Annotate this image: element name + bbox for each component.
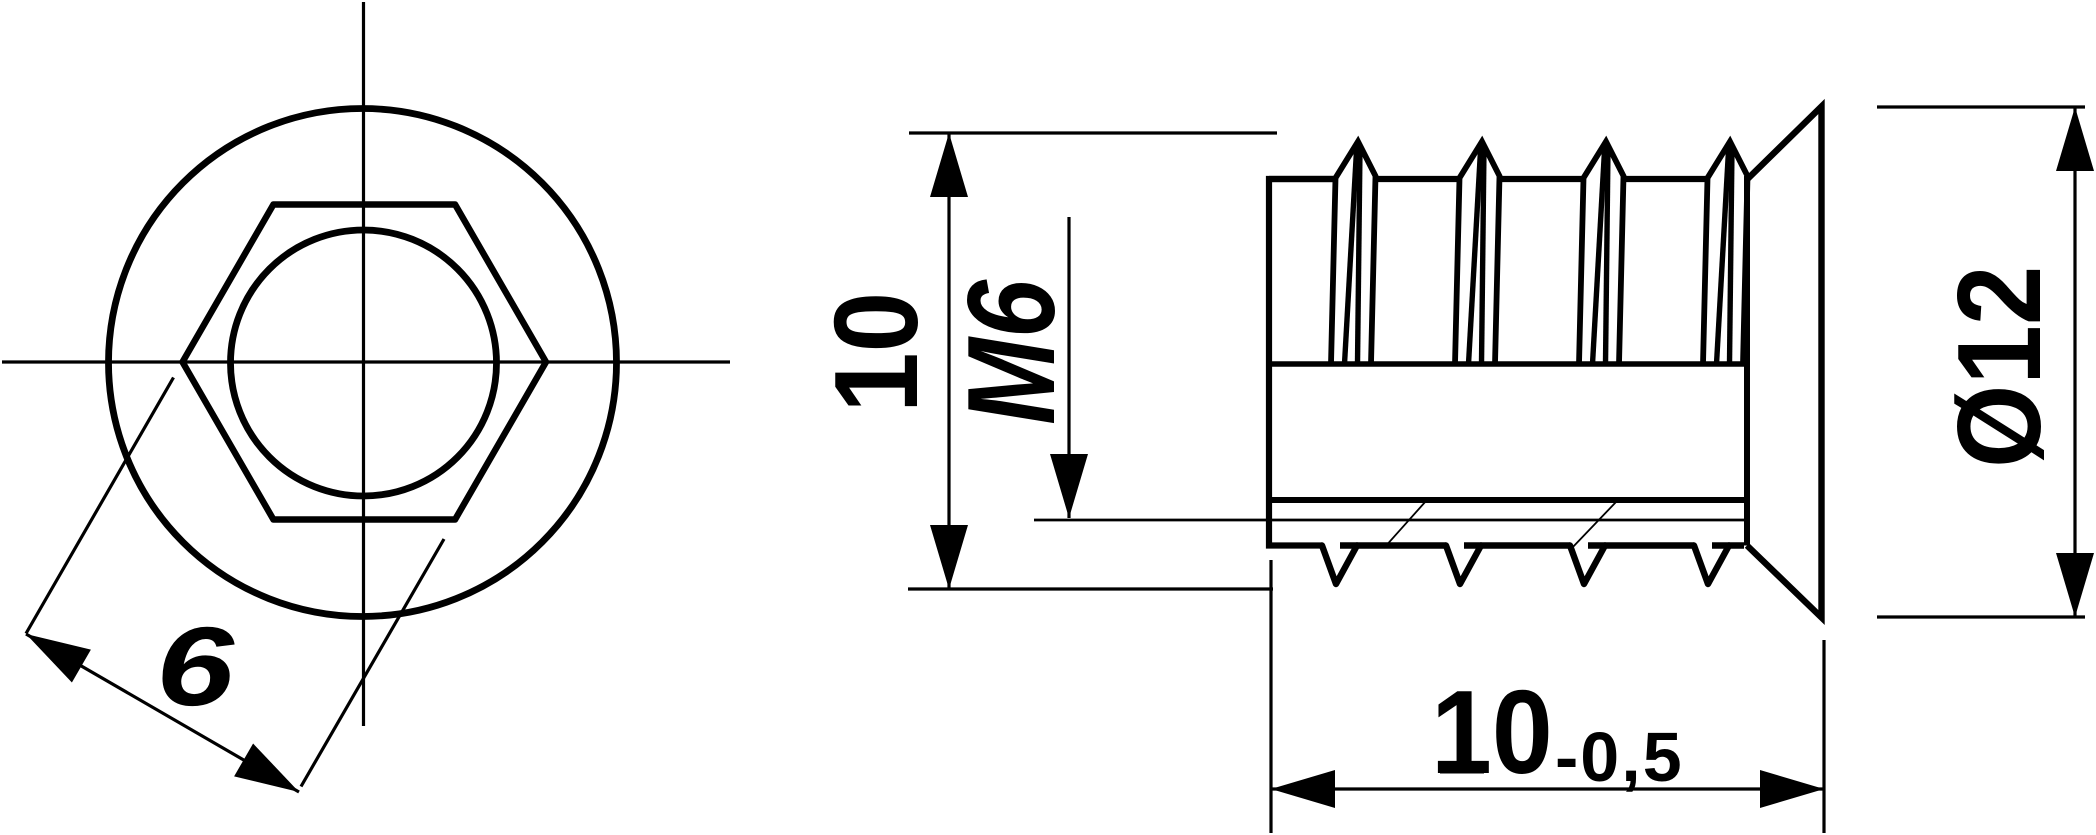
dim 10-0,5: dimension line xyxy=(1271,787,1824,790)
dim Ø12: dimension line xyxy=(2073,107,2076,617)
dim 10: arrow up xyxy=(930,133,968,197)
dim 10: arrow down xyxy=(930,525,968,589)
dim 6: extension line 2 xyxy=(301,539,444,787)
bottom cutting tooth 1 xyxy=(1322,546,1357,585)
hatch tick 2 xyxy=(1571,502,1616,549)
flange (countersunk head) xyxy=(1747,107,1822,618)
dim 6: dimension line xyxy=(26,634,299,792)
svg-text:10: 10 xyxy=(811,292,943,413)
thread tooth 2 outline xyxy=(1455,142,1500,365)
hatch tick 1 xyxy=(1384,501,1426,548)
dim 6: extension line 1 xyxy=(26,378,174,634)
insert body: bottom edge segments xyxy=(1340,542,1446,548)
dim 6: arrow lower-right xyxy=(234,744,299,793)
thread root line xyxy=(1269,361,1747,367)
insert body: left edge and bottom-left xyxy=(1269,179,1338,546)
insert body: right edge xyxy=(1744,176,1750,546)
thread tooth 3 body mask xyxy=(1579,142,1624,365)
serif foot of 1 (bottom 10 dim) xyxy=(1440,764,1484,774)
dim 10 (thread dia): top extension line xyxy=(909,131,1277,134)
thread minor line (thin, M6 pointer) xyxy=(1034,519,1744,522)
thread tooth 1 inner lines xyxy=(1345,147,1357,364)
dim M6: dimension line with arrow xyxy=(1067,217,1070,518)
svg-text:Ø12: Ø12 xyxy=(1933,266,2065,468)
thread tooth 1 body mask xyxy=(1331,142,1376,365)
svg-text:6: 6 xyxy=(156,603,236,728)
hexagon socket xyxy=(183,205,547,520)
dim Ø12: bottom extension line xyxy=(1877,615,2085,618)
front view: centerline vertical xyxy=(362,2,365,726)
svg-text:-0,5: -0,5 xyxy=(1555,718,1684,796)
thread tooth 2 inner lines xyxy=(1469,147,1481,364)
dim 10-0,5: right extension line xyxy=(1822,640,1825,833)
front view: centerline horizontal xyxy=(2,360,730,363)
dim 10-0,5: left extension line xyxy=(1269,560,1272,833)
thread tooth 4 inner lines xyxy=(1717,147,1729,364)
dim Ø12: top extension line xyxy=(1877,105,2085,108)
svg-text:M6: M6 xyxy=(943,279,1081,425)
serif foot of 1 (left 10 dim) xyxy=(906,364,917,405)
dim 10 (thread dia): bottom extension line xyxy=(908,587,1273,590)
bottom cutting tooth 2 xyxy=(1446,546,1481,585)
outer circle (flange dia 12) xyxy=(109,109,617,617)
serif foot of 1 (O12 dim) xyxy=(2030,331,2040,375)
collar line (thick) xyxy=(1269,497,1747,503)
insert body: top edge xyxy=(1269,176,1747,182)
inner circle (thread hole) xyxy=(231,230,497,496)
svg-text:10: 10 xyxy=(1431,667,1553,799)
dim 6: arrow upper-left xyxy=(26,634,91,683)
thread tooth 4 outline xyxy=(1703,142,1748,365)
dim 10 (thread dia): dimension line xyxy=(947,133,950,589)
bottom cutting tooth 3 xyxy=(1570,546,1605,585)
bottom cutting tooth 4 xyxy=(1694,546,1729,585)
thread tooth 2 body mask xyxy=(1455,142,1500,365)
thread tooth 3 outline xyxy=(1579,142,1624,365)
thread tooth 3 inner lines xyxy=(1593,147,1605,364)
thread tooth 4 body mask xyxy=(1703,142,1748,365)
thread tooth 1 outline xyxy=(1331,142,1376,365)
